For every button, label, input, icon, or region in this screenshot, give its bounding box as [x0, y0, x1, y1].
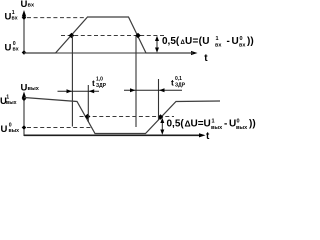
label Uвых (output axis) [21, 83, 40, 94]
marker output falling 50% point [85, 114, 91, 120]
svg-text:ЗДР: ЗДР [175, 83, 186, 89]
svg-text:вх: вх [12, 16, 18, 22]
tick U1вх level on axis [22, 15, 27, 20]
svg-text:вых: вых [6, 100, 17, 106]
half-swing indicator arrow (input) [155, 36, 159, 53]
svg-text:U: U [232, 36, 239, 47]
marker line at output rising 50% (vertical) [158, 79, 160, 120]
dashed 50% level line (input) [61, 35, 166, 37]
half-swing indicator arrow (output) [160, 118, 164, 135]
marker input rising 50% point [69, 33, 75, 39]
svg-text:вх: вх [28, 3, 35, 9]
svg-text:1: 1 [212, 119, 215, 125]
tick U0вых level on axis [22, 125, 27, 130]
svg-text:вых: вых [28, 86, 40, 92]
label U0вх (input low level) [5, 41, 19, 54]
dashed line U1вх level [27, 17, 86, 19]
input voltage axis Uвх (vertical) [22, 10, 26, 54]
svg-text:-: - [227, 36, 230, 47]
svg-text:U=(U: U=(U [185, 36, 210, 47]
tick U1вых level on axis [22, 97, 27, 102]
input waveform (trapezoid pulse) [24, 17, 193, 53]
formula 0,5(ΔU=U1вых - U0вых)) [167, 119, 256, 132]
svg-text:t: t [171, 78, 174, 88]
svg-text:)): )) [247, 36, 254, 47]
svg-text:вых: вых [236, 125, 248, 131]
svg-text:U: U [21, 0, 28, 10]
svg-text:1,0: 1,0 [96, 77, 103, 83]
svg-text:U=U: U=U [191, 119, 211, 130]
svg-text:1: 1 [216, 36, 219, 42]
input time axis (horizontal) [24, 51, 198, 55]
label U0вых (output low level) [1, 123, 20, 136]
svg-text:вх: вх [239, 43, 246, 49]
svg-text:t: t [92, 78, 95, 88]
label t01здр (delay low-to-high) [171, 76, 186, 89]
output voltage axis Uвых (vertical) [22, 92, 26, 137]
marker line at output falling 50% (vertical) [87, 85, 89, 122]
svg-text:U: U [1, 124, 8, 135]
label t10здр (delay high-to-low) [92, 77, 107, 90]
svg-text:)): )) [249, 119, 256, 130]
formula 0,5(ΔU=(U1вх - U0вх)) [162, 36, 254, 49]
output waveform (inverted pulse) [24, 98, 220, 134]
marker input falling 50% point [135, 33, 141, 39]
svg-text:0,1: 0,1 [175, 76, 182, 82]
dashed 50% level line (output) [80, 116, 175, 118]
svg-text:вых: вых [9, 128, 20, 134]
svg-text:ЗДР: ЗДР [96, 83, 107, 89]
delay measurement arrows t01 (into interval 136-158.5) [124, 88, 182, 92]
svg-text:U: U [5, 43, 12, 54]
marker line at input falling 50% (vertical) [135, 36, 137, 127]
marker output rising 50% point [158, 114, 164, 120]
label U1вых (output high level) [0, 95, 17, 108]
dashed line U0вых level [27, 127, 92, 129]
delay measurement arrows t10 (into interval 72.4-88.3) [58, 89, 100, 93]
svg-text:U: U [5, 12, 12, 23]
svg-text:0: 0 [237, 119, 240, 125]
tick U0вх level on axis [22, 50, 27, 55]
svg-text:U: U [21, 83, 28, 94]
svg-text:-: - [224, 119, 227, 130]
output time axis (horizontal) [24, 133, 206, 137]
svg-text:вых: вых [211, 125, 223, 131]
svg-text:вх: вх [13, 47, 19, 53]
svg-text:0,5(: 0,5( [162, 36, 180, 47]
label U1вх (input high level) [5, 10, 18, 23]
label Uвх (input axis) [21, 0, 35, 10]
svg-text:вх: вх [215, 43, 222, 49]
svg-text:0,5(: 0,5( [167, 119, 185, 130]
svg-text:0: 0 [240, 36, 243, 42]
marker line at input rising 50% (vertical) [71, 36, 73, 127]
